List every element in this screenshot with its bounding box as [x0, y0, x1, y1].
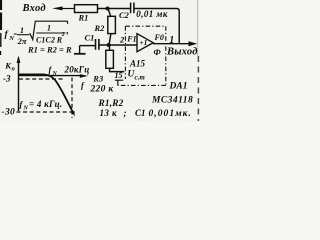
svg-text:1: 1: [47, 23, 51, 32]
svg-text:20кГц: 20кГц: [64, 65, 90, 75]
node B junction: [107, 43, 111, 47]
scan artifact right edge: [197, 0, 199, 56]
svg-text:0,001мк.: 0,001мк.: [149, 109, 192, 119]
wire input arrow (pointing left): [52, 6, 75, 10]
ground: [74, 46, 86, 54]
op-amp U1 (buffer +1): [137, 34, 153, 52]
svg-text:МС34118: МС34118: [151, 95, 193, 105]
svg-text:С2: С2: [119, 10, 130, 20]
svg-text:R2: R2: [94, 23, 106, 33]
svg-text:F1: F1: [126, 35, 136, 44]
formula fN = 1/2pi sqrt(1/C1C2R2): [5, 21, 73, 55]
scan artifact left edge: [0, 0, 2, 55]
svg-text:2: 2: [61, 32, 65, 38]
svg-text:N: N: [23, 106, 29, 112]
curve Kп(f): [19, 74, 74, 113]
wire R2 bottom to node B: [109, 34, 111, 45]
dashed -30 level: [17, 111, 74, 113]
wire R1 to node A: [98, 8, 131, 10]
capacitor C2: [131, 3, 134, 14]
svg-text:R1 = R2 = R: R1 = R2 = R: [27, 45, 72, 55]
resistor R2: [108, 16, 116, 33]
svg-text:N: N: [52, 71, 58, 77]
capacitor C1: [96, 39, 99, 50]
svg-text:Вход: Вход: [22, 3, 46, 14]
svg-text:;: ;: [124, 108, 127, 118]
wire C2 to output node (top right corner down): [135, 9, 180, 44]
wire op-amp output to Выход arrow: [153, 41, 197, 46]
svg-text:13 к: 13 к: [100, 108, 117, 118]
svg-text:Выход: Выход: [166, 47, 198, 58]
svg-text:+1: +1: [139, 38, 147, 47]
dashed vertical at 20kHz: [71, 78, 73, 119]
wire ground to C1: [80, 45, 95, 47]
wire C1 to node B to op-amp input: [99, 44, 137, 46]
svg-text:С1: С1: [135, 108, 146, 118]
graph of Kp vs f: [2, 56, 90, 119]
svg-text:DA1: DA1: [169, 82, 188, 92]
resistor R3: [106, 50, 114, 68]
svg-text:= 4 кГц.: = 4 кГц.: [29, 99, 62, 109]
IC boundary box DA1 (dash-dot): [118, 26, 166, 85]
axis f: [19, 74, 89, 78]
wire node A down to R2: [108, 9, 111, 17]
svg-text:2: 2: [119, 35, 125, 45]
wire node B down to R3: [109, 45, 111, 50]
svg-text:С1: С1: [85, 33, 95, 43]
svg-text:А15: А15: [129, 59, 146, 69]
svg-text:,: ,: [66, 25, 69, 35]
svg-text:15: 15: [115, 71, 123, 80]
svg-text:F0: F0: [154, 33, 164, 42]
svg-text:с.т: с.т: [135, 74, 146, 82]
resistor R1: [75, 5, 98, 13]
svg-text:R3: R3: [92, 74, 104, 84]
svg-text:2π: 2π: [17, 36, 27, 46]
dashed -3 level: [19, 78, 63, 80]
node A junction: [106, 7, 110, 11]
svg-text:1: 1: [20, 26, 24, 35]
svg-text:С1С2 R: С1С2 R: [36, 35, 63, 44]
svg-text:-3: -3: [3, 74, 11, 84]
svg-text:0,01 мк: 0,01 мк: [136, 9, 168, 19]
svg-text:220 к: 220 к: [90, 85, 115, 95]
svg-text:-30: -30: [2, 108, 16, 118]
svg-text:Ф: Ф: [154, 47, 162, 57]
wire R3 to pin 15: [110, 68, 125, 71]
svg-text:R1: R1: [78, 13, 89, 23]
